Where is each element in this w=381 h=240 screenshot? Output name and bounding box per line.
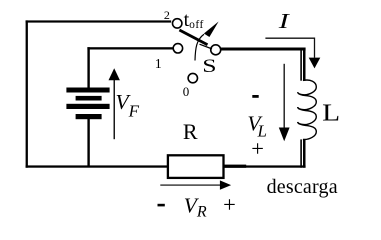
wire from switch S to top right corner <box>221 48 306 51</box>
switch pivot circle S <box>211 45 221 55</box>
wire down from terminal-1 wire to battery top <box>87 47 89 88</box>
VF arrow up <box>114 78 116 139</box>
current I arrowhead down <box>309 58 321 69</box>
svg-text:+: + <box>251 136 264 161</box>
terminal 2 circle <box>173 19 182 28</box>
VL arrow down <box>284 64 285 128</box>
inductor L coil (4 loops) <box>298 80 317 139</box>
svg-text:toff: toff <box>184 9 204 31</box>
svg-text:+: + <box>223 192 236 217</box>
svg-text:2: 2 <box>164 8 170 22</box>
svg-text:S: S <box>202 56 216 77</box>
wire battery bottom to bottom wire <box>87 119 89 167</box>
current I indicator line <box>265 38 314 58</box>
right wire double line lower segment <box>300 139 302 167</box>
battery VF: long plate 1 <box>66 88 109 93</box>
battery short plate 4 <box>76 114 102 119</box>
svg-text:R: R <box>183 119 198 144</box>
battery short plate 2 <box>76 96 102 101</box>
svg-text:VR: VR <box>184 193 207 220</box>
wire from terminal 1 left <box>87 47 173 49</box>
wire bottom left to resistor <box>26 165 167 167</box>
svg-text:descarga: descarga <box>267 176 338 198</box>
svg-text:0: 0 <box>183 84 190 99</box>
VR arrow right <box>160 184 222 185</box>
label minus VR <box>158 204 165 207</box>
battery long plate 3 <box>66 104 109 109</box>
label minus above VL <box>252 95 258 98</box>
resistor R box <box>168 155 224 178</box>
terminal 0 circle <box>188 73 197 82</box>
terminal 1 circle <box>173 44 182 53</box>
switch blade from terminal 2 to S <box>179 30 207 45</box>
svg-text:1: 1 <box>155 57 162 72</box>
switch motion arrowhead <box>204 22 219 38</box>
svg-text:VF: VF <box>116 90 140 120</box>
wire top from left corner to terminal 2 <box>26 20 172 22</box>
wire bottom right from resistor to right corner <box>224 165 305 167</box>
switch motion arc <box>195 34 204 60</box>
wire left side <box>26 20 28 167</box>
right wire double line upper segment <box>300 48 302 81</box>
svg-text:L: L <box>322 100 340 126</box>
svg-text:I: I <box>277 9 290 33</box>
